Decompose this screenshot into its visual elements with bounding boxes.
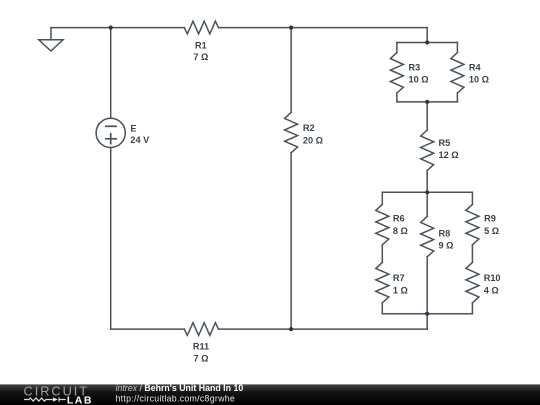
node lower block top junction	[425, 190, 429, 194]
svg-text:http://circuitlab.com/c8grwhe: http://circuitlab.com/c8grwhe	[116, 394, 236, 404]
svg-text:intrex / Behrn's Unit Hand In: intrex / Behrn's Unit Hand In 10	[116, 383, 244, 393]
resistor R6	[376, 192, 389, 245]
logo CircuitLab wordmark	[24, 384, 93, 405]
label R7 value	[393, 273, 408, 295]
svg-text:9 Ω: 9 Ω	[439, 241, 454, 251]
svg-text:R2: R2	[303, 123, 315, 133]
svg-text:LAB: LAB	[67, 394, 93, 405]
svg-text:24 V: 24 V	[130, 135, 150, 145]
node upper block top junction	[425, 40, 429, 44]
svg-text:R1: R1	[195, 41, 207, 51]
wire R8 bottom	[426, 257, 428, 314]
svg-text:R4: R4	[469, 62, 482, 72]
resistor R9	[466, 192, 479, 245]
label R11 value	[193, 342, 209, 364]
ground	[39, 28, 63, 51]
wire R6-R7	[381, 245, 383, 263]
wire upper parallel bottom rail	[397, 101, 458, 103]
wire lower parallel top rail	[382, 191, 472, 193]
node R2 bottom junction	[289, 327, 293, 331]
label R10 value	[484, 273, 501, 295]
svg-text:R11: R11	[193, 342, 209, 352]
svg-text:R7: R7	[393, 273, 405, 283]
wire left column lower	[110, 148, 112, 330]
svg-text:5 Ω: 5 Ω	[484, 226, 499, 236]
resistor R11	[184, 323, 218, 336]
label R5 value	[439, 138, 459, 160]
svg-text:7 Ω: 7 Ω	[193, 353, 208, 363]
svg-text:R10: R10	[484, 273, 501, 283]
wire R5 bottom	[426, 170, 428, 192]
voltage source E	[96, 118, 125, 147]
wire R8 top	[426, 192, 428, 216]
resistor R4	[451, 43, 464, 102]
label R9 value	[484, 214, 499, 236]
svg-text:20 Ω: 20 Ω	[303, 135, 323, 145]
svg-text:7 Ω: 7 Ω	[193, 52, 208, 62]
wire R2 top	[290, 28, 292, 113]
resistor R7	[376, 262, 389, 313]
resistor R5	[421, 130, 434, 170]
node upper block bottom junction	[425, 100, 429, 104]
svg-text:R8: R8	[439, 228, 451, 238]
svg-text:8 Ω: 8 Ω	[393, 226, 408, 236]
svg-text:R6: R6	[393, 214, 405, 224]
wire R2 bottom	[290, 153, 292, 329]
svg-text:E: E	[130, 124, 136, 134]
svg-text:1 Ω: 1 Ω	[393, 285, 408, 295]
resistor R3	[390, 43, 403, 102]
label E value	[130, 124, 150, 145]
wire bottom horizontal	[111, 328, 428, 330]
wire R9-R10	[471, 245, 473, 263]
svg-text:10 Ω: 10 Ω	[469, 75, 489, 85]
label R2 value	[303, 123, 323, 145]
label R6 value	[393, 214, 408, 236]
label R8 value	[439, 228, 454, 250]
resistor R10	[466, 262, 479, 313]
svg-text:R5: R5	[439, 138, 451, 148]
wire left column upper	[110, 28, 112, 119]
resistor R2	[285, 112, 298, 152]
svg-text:12 Ω: 12 Ω	[439, 150, 459, 160]
wire top horizontal	[51, 27, 427, 29]
node top-left junction	[109, 26, 113, 30]
wire top-right corner down	[426, 28, 428, 43]
label R4 value	[469, 62, 489, 84]
wire upper parallel top rail	[397, 42, 458, 44]
label R1 value	[193, 41, 208, 63]
svg-text:10 Ω: 10 Ω	[409, 75, 429, 85]
wire R5 top	[426, 102, 428, 130]
node R2 top junction	[289, 26, 293, 30]
svg-text:R3: R3	[409, 62, 421, 72]
resistor R1	[184, 21, 218, 34]
footer bar	[0, 384, 540, 405]
node lower block bottom junction	[425, 312, 429, 316]
wire bottom-right corner up	[426, 314, 428, 329]
resistor R8	[421, 216, 434, 256]
wire lower parallel bottom rail	[382, 313, 472, 315]
label R3 value	[409, 62, 429, 84]
svg-text:R9: R9	[484, 214, 496, 224]
svg-text:4 Ω: 4 Ω	[484, 285, 499, 295]
